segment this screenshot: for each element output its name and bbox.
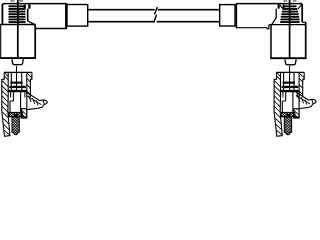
boot left edge	[1, 4, 3, 24]
cable top line right segment	[158, 9, 220, 11]
right horn + boot top edge	[236, 4, 302, 22]
right lower right wall hatching	[294, 110, 299, 118]
left wall outline	[2, 72, 10, 136]
body bottom edge	[0, 57, 36, 59]
right section right wall outline	[299, 72, 304, 118]
right body right shoulder	[302, 21, 306, 23]
spring seat blob	[14, 114, 18, 118]
right section lower tube walls	[282, 92, 293, 113]
right section under-block line	[295, 116, 299, 118]
section centerline	[16, 66, 18, 92]
right section upper tube walls	[284, 72, 294, 92]
boot ribs	[9, 5, 26, 23]
right boot right edge	[301, 5, 303, 22]
right body bottom edge	[270, 57, 306, 59]
bracket arm	[27, 93, 47, 110]
left wall hatching	[2, 73, 10, 135]
horn right edge	[65, 4, 67, 29]
upper tube walls	[11, 72, 21, 92]
cable bottom line left segment	[88, 21, 154, 23]
right horn bottom edge with notch	[236, 25, 268, 29]
right boot flare diagonal	[272, 18, 276, 25]
right section top edge	[276, 71, 304, 73]
section top edge	[4, 71, 32, 73]
cable top line left segment	[88, 9, 155, 11]
right body left edge	[270, 25, 272, 59]
cable break symbol	[154, 7, 158, 23]
right bracket tip notch	[312, 99, 314, 104]
right section left wall hatching	[274, 73, 282, 135]
right boot collar (dark bar left of ribs)	[278, 4, 280, 8]
contact block (crosshatched)	[9, 112, 23, 116]
right section washer seat walls	[283, 92, 297, 98]
stud tip	[14, 132, 18, 134]
right nipple	[285, 59, 296, 65]
lower right wall hatching	[21, 110, 26, 118]
right section contact block (crosshatched)	[281, 112, 295, 116]
boot right jagged edge	[27, 9, 29, 22]
right boot cap edges	[280, 5, 302, 9]
under-block line	[23, 116, 27, 118]
right section left wall outline	[274, 72, 282, 136]
centerline right connector	[289, 0, 291, 59]
bracket tip notch	[43, 100, 45, 105]
right section washer stack	[281, 82, 300, 93]
body left edge	[0, 24, 2, 59]
right boot left jagged edge	[275, 9, 277, 18]
centerline left connector	[17, 0, 19, 59]
right section threaded stud (crosshatched)	[284, 117, 291, 133]
boot collar inner blob	[24, 5, 26, 9]
nipple	[12, 59, 23, 65]
right boot collar inner blob	[283, 5, 285, 9]
right wall hatching	[27, 73, 32, 95]
horn + boot top edge	[3, 4, 68, 5]
bracket hatching	[27, 96, 41, 106]
right boot top nub (faint)	[283, 0, 296, 2]
horn bottom edge	[36, 28, 67, 30]
washer seat walls	[11, 92, 25, 98]
cable bottom line right segment	[157, 21, 220, 23]
threaded stud (crosshatched)	[12, 117, 19, 133]
right spring seat blob	[286, 114, 290, 118]
right lower right wall	[294, 109, 299, 118]
body right edge	[34, 24, 36, 58]
boot top nub (faint)	[10, 0, 23, 2]
lower right wall	[21, 109, 26, 118]
right bracket arm	[296, 92, 316, 109]
right boot ribs	[280, 5, 299, 23]
right sleeve	[220, 5, 235, 26]
right stud tip	[286, 132, 290, 134]
right body left shoulder	[269, 24, 273, 26]
washer stack	[8, 82, 27, 93]
right section centerline	[289, 66, 291, 92]
right body top edge	[271, 24, 306, 26]
body top edge	[0, 24, 35, 26]
lower tube walls	[10, 92, 21, 113]
right wall outline	[27, 72, 32, 118]
right bracket hatching	[296, 95, 310, 105]
right horn left edge	[235, 3, 237, 28]
boot flare diagonal	[28, 21, 35, 25]
right body right edge	[305, 22, 307, 58]
boot collar (dark bar right of ribs)	[28, 4, 30, 8]
sleeve	[67, 5, 88, 27]
right section right wall hatching	[299, 73, 304, 95]
